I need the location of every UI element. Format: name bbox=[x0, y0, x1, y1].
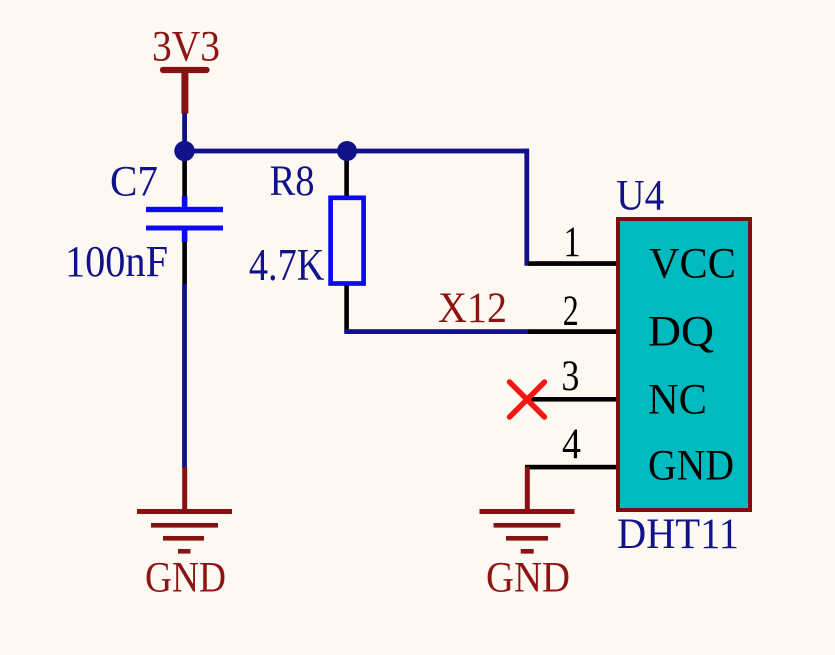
svg-text:VCC: VCC bbox=[649, 241, 736, 288]
svg-text:GND: GND bbox=[648, 443, 734, 490]
svg-text:DHT11: DHT11 bbox=[617, 511, 739, 558]
svg-text:100nF: 100nF bbox=[65, 237, 168, 286]
svg-text:U4: U4 bbox=[616, 173, 664, 220]
svg-text:C7: C7 bbox=[110, 159, 158, 206]
svg-text:3V3: 3V3 bbox=[152, 24, 220, 71]
svg-text:4: 4 bbox=[562, 421, 581, 468]
svg-text:R8: R8 bbox=[270, 158, 315, 205]
svg-text:4.7K: 4.7K bbox=[249, 240, 325, 290]
svg-text:2: 2 bbox=[563, 288, 579, 335]
svg-text:NC: NC bbox=[648, 377, 707, 424]
svg-text:GND: GND bbox=[486, 555, 570, 602]
svg-text:GND: GND bbox=[145, 555, 226, 602]
svg-text:DQ: DQ bbox=[648, 309, 714, 356]
svg-text:X12: X12 bbox=[438, 285, 507, 332]
svg-text:1: 1 bbox=[564, 219, 581, 266]
svg-text:3: 3 bbox=[561, 353, 579, 400]
